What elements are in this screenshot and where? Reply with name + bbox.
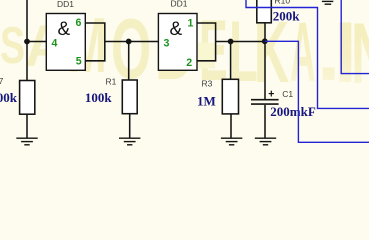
wire: node B down to R1	[128, 42, 130, 81]
wire: gate1 output to gate2 input	[105, 41, 159, 43]
svg-text:4: 4	[52, 38, 58, 50]
watermark wash	[198, 43, 215, 69]
svg-text:5: 5	[76, 55, 82, 67]
node C (junction dot)	[228, 39, 234, 45]
wire: gate1 feedback loop pins 6-5	[85, 23, 105, 61]
wire: gate2 feedback loop pins 1-2	[197, 23, 216, 61]
node A (junction dot)	[24, 39, 30, 45]
wire: R7 to ground	[26, 114, 28, 138]
capacitor C1	[251, 100, 279, 104]
svg-text:100k: 100k	[0, 90, 18, 105]
svg-text:R1: R1	[106, 76, 117, 86]
ground (R1)	[119, 138, 140, 145]
svg-text:C1: C1	[282, 89, 293, 99]
wire: left vertical rail	[26, 0, 28, 81]
wire: R3 to ground	[230, 114, 232, 138]
svg-text:6: 6	[76, 17, 82, 29]
svg-text:DD1: DD1	[171, 0, 188, 8]
wire: C1 to ground	[264, 105, 266, 138]
wire: blue net 1 (top feed to right)	[246, 0, 369, 108]
resistor R10 (clipped at top)	[257, 0, 272, 23]
svg-text:R3: R3	[202, 79, 213, 89]
wire: R1 to ground	[129, 114, 131, 139]
ground (top, clipped)	[322, 1, 333, 4]
svg-text:R7: R7	[0, 76, 4, 86]
ground (R7)	[16, 138, 37, 145]
svg-text:3: 3	[164, 37, 170, 49]
ground (C1)	[255, 138, 276, 145]
svg-text:1: 1	[188, 18, 194, 30]
svg-text:100k: 100k	[85, 90, 113, 105]
polarity + of C1	[269, 91, 274, 97]
logic gate DD1.2	[158, 14, 197, 71]
svg-text:N: N	[351, 6, 369, 102]
resistor R7	[20, 81, 35, 115]
node D (junction dot)	[262, 38, 268, 44]
watermark	[0, 1, 369, 102]
svg-text:200k: 200k	[273, 8, 301, 23]
svg-text:1M: 1M	[197, 93, 216, 108]
wire: blue net 3 (output tap)	[265, 41, 369, 142]
svg-text:DD1: DD1	[57, 0, 74, 9]
wire: gate2 output to node D	[216, 41, 265, 43]
ground (R3)	[221, 138, 242, 145]
svg-text:R10: R10	[275, 0, 291, 6]
wire: R10 down to node D	[264, 23, 266, 42]
node B (junction dot)	[126, 39, 132, 45]
resistor R3	[222, 79, 238, 114]
wire: blue net 2 (right rail)	[341, 0, 369, 74]
svg-text:S: S	[0, 16, 25, 75]
wire: node to gate1 input	[27, 41, 47, 43]
wire: node D down to C1	[264, 42, 266, 101]
svg-text:&: &	[58, 19, 71, 40]
resistor R1	[122, 80, 137, 114]
wire: node C down to R3	[230, 42, 232, 80]
svg-text:2: 2	[186, 57, 192, 69]
svg-text:&: &	[170, 19, 183, 40]
logic gate DD1.1	[46, 14, 85, 71]
svg-text:200mkF: 200mkF	[270, 104, 316, 119]
